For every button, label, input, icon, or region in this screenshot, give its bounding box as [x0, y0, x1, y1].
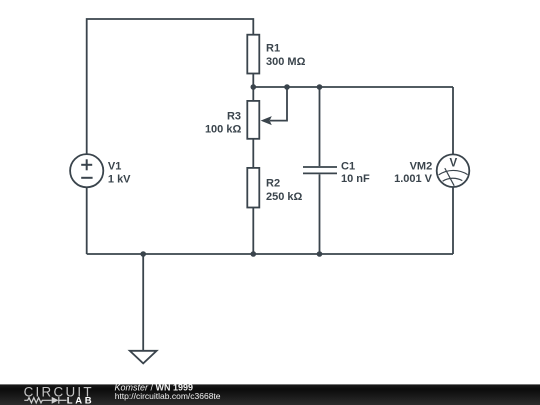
junction dot bottom net at R2	[251, 251, 257, 257]
resistor R1	[247, 35, 259, 74]
resistor R2	[247, 168, 259, 208]
svg-text:10 nF: 10 nF	[341, 173, 370, 185]
svg-text:R2: R2	[266, 177, 280, 189]
svg-text:1 kV: 1 kV	[108, 173, 131, 185]
potentiometer R3 body	[247, 101, 259, 139]
VM2 label 1.001 V	[394, 160, 433, 185]
wire from V1 + terminal up and across to R1 top	[87, 19, 254, 154]
wire V1 - terminal to bottom net	[86, 187, 88, 254]
junction dot node A at R1/R3	[251, 84, 257, 90]
CircuitLab logo resistor-diode glyph	[24, 397, 66, 404]
voltage source V1	[70, 154, 103, 187]
R3 wiper arrow	[261, 116, 272, 125]
svg-text:1.001 V: 1.001 V	[394, 173, 433, 185]
wire R2 bottom to bottom net	[252, 208, 254, 255]
voltmeter VM2	[437, 154, 470, 187]
wire node A down to VM2 top	[452, 87, 454, 154]
svg-text:V: V	[449, 157, 457, 169]
junction dot bottom net at C1	[317, 251, 323, 257]
wire node A to R3 top	[252, 87, 254, 101]
node A horizontal wire	[253, 86, 453, 88]
R2 label 250 kΩ	[266, 177, 303, 202]
R3 label 100 kΩ	[205, 110, 242, 135]
svg-text:V1: V1	[108, 160, 121, 172]
junction dot node A at C1 branch	[317, 84, 323, 90]
ground stem wire	[142, 254, 144, 351]
wire R3 wiper to node A	[270, 87, 287, 121]
capacitor C1 plates	[303, 167, 337, 173]
V1 plus sign	[81, 159, 92, 170]
wire R1 bottom to node A	[252, 74, 254, 88]
svg-text:http://circuitlab.com/c3668te: http://circuitlab.com/c3668te	[115, 391, 221, 401]
V1 label 1 kV	[108, 160, 131, 185]
R1 label 300 MΩ	[266, 43, 306, 68]
ground symbol	[130, 351, 157, 364]
svg-text:VM2: VM2	[410, 160, 433, 172]
wire C1 bottom lead	[319, 174, 321, 254]
svg-text:100 kΩ: 100 kΩ	[205, 123, 242, 135]
svg-text:R3: R3	[227, 110, 241, 122]
svg-text:R1: R1	[266, 43, 280, 55]
wire C1 top lead	[319, 87, 321, 166]
junction dot node A at wiper branch	[284, 84, 290, 90]
V1 minus sign	[81, 177, 92, 179]
wire R3 bottom to R2 top	[252, 139, 254, 168]
VM2 meter scale arcs	[439, 170, 468, 181]
C1 label 10 nF	[341, 160, 370, 185]
svg-text:LAB: LAB	[67, 395, 92, 405]
svg-text:300 MΩ: 300 MΩ	[266, 56, 306, 68]
footer bar	[0, 384, 540, 405]
bottom net wire	[87, 253, 453, 255]
wire VM2 bottom to bottom net	[452, 187, 454, 254]
svg-text:250 kΩ: 250 kΩ	[266, 191, 303, 203]
junction dot bottom net at ground	[140, 251, 146, 257]
VM2 needle	[445, 168, 454, 186]
svg-text:C1: C1	[341, 160, 355, 172]
